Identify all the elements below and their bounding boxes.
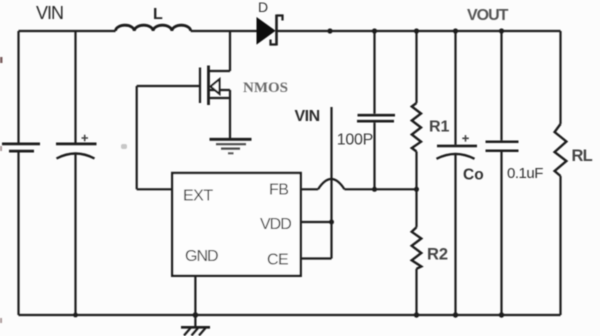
svg-text:VIN: VIN	[295, 108, 320, 125]
svg-text:Co: Co	[463, 166, 484, 183]
svg-text:L: L	[153, 6, 163, 23]
svg-text:NMOS: NMOS	[243, 80, 288, 96]
svg-text:100P: 100P	[337, 132, 373, 149]
svg-text:FB: FB	[269, 181, 288, 198]
svg-text:RL: RL	[572, 147, 593, 165]
svg-text:R2: R2	[427, 246, 448, 264]
svg-text:VDD: VDD	[260, 216, 291, 233]
svg-text:CE: CE	[267, 252, 288, 269]
svg-text:EXT: EXT	[183, 188, 213, 205]
svg-text:VIN: VIN	[36, 3, 63, 23]
svg-text:GND: GND	[185, 248, 218, 265]
svg-text:VOUT: VOUT	[467, 7, 509, 24]
svg-text:D: D	[258, 0, 268, 15]
svg-text:R1: R1	[429, 118, 450, 135]
svg-text:0.1uF: 0.1uF	[507, 165, 543, 182]
